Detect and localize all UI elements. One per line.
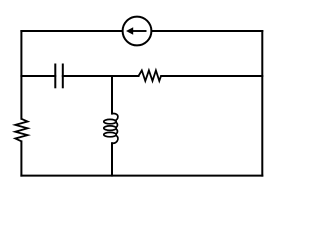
inductor L1 bbox=[104, 114, 118, 144]
wire middle vertical lower bbox=[111, 143, 113, 175]
wire second row middle bbox=[63, 75, 139, 77]
wire right vertical bbox=[261, 31, 263, 176]
current source I1 bbox=[123, 17, 152, 46]
wire top right segment bbox=[152, 30, 262, 32]
wire bottom bbox=[21, 175, 262, 177]
resistor R1 bbox=[15, 119, 27, 142]
wire top left segment bbox=[21, 30, 122, 32]
wire left vertical lower bbox=[20, 141, 22, 175]
capacitor C1 bbox=[55, 64, 63, 89]
wire middle vertical upper bbox=[111, 76, 113, 114]
resistor R2 bbox=[139, 70, 162, 81]
wire left vertical upper bbox=[20, 31, 22, 119]
wire second row right bbox=[161, 75, 262, 77]
wire second row left bbox=[21, 75, 55, 77]
